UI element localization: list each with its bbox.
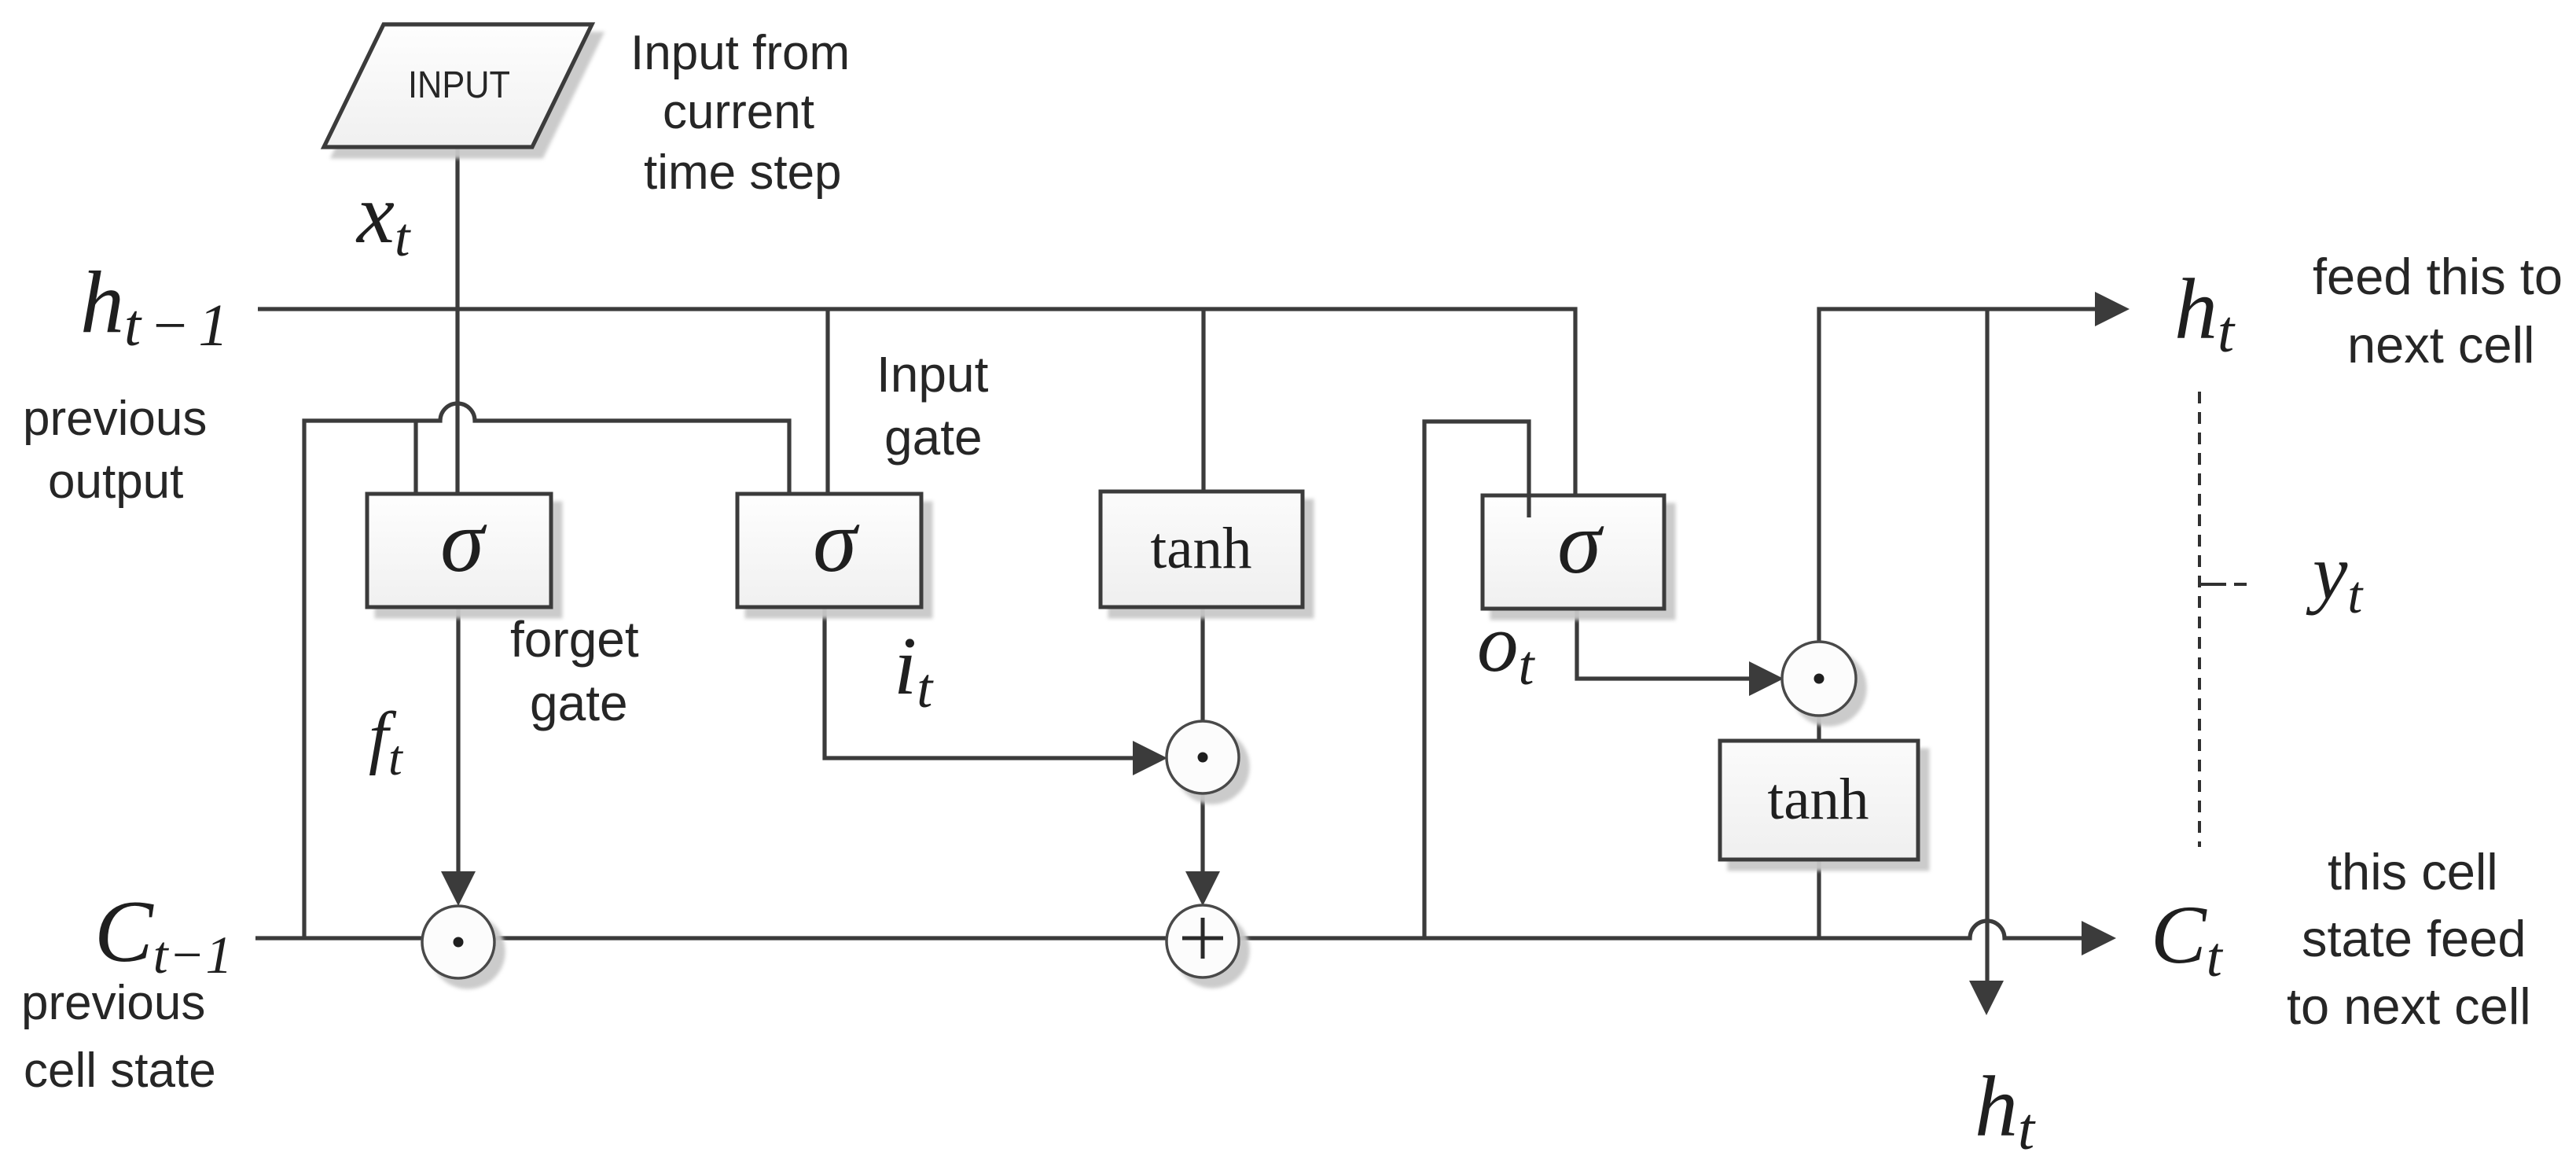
svg-text:ot: ot [1477,597,1536,697]
svg-text:σ: σ [440,492,487,591]
svg-text:feed this to: feed this to [2313,248,2563,305]
box input gate sigma [737,494,921,607]
arrow h_t right [2095,292,2130,326]
dashed line for y_t output [2198,392,2201,847]
arrow multiply into plus node [1185,871,1220,906]
svg-text:Input from: Input from [630,26,850,80]
wire i_t from input gate to multiply node [825,607,1133,758]
svg-text:Ct−1: Ct−1 [94,883,233,985]
svg-text:gate: gate [530,675,628,731]
svg-text:σ: σ [1557,494,1604,592]
wire peephole from C(t-1) to forget and input gates with hop over x_t [304,403,789,938]
svg-text:this cell: this cell [2328,843,2498,900]
arrow i_t into input multiply [1133,741,1167,775]
svg-text:ht: ht [1975,1058,2036,1162]
wire h branch into input gate [825,309,829,494]
svg-text:it: it [894,620,934,720]
wire h_t output segment to right arrow [1819,309,2096,642]
svg-text:ht−1: ht−1 [80,254,237,359]
box output tanh [1720,741,1918,860]
dashed tick toward y_t [2201,583,2247,586]
svg-text:yt: yt [2306,528,2364,624]
svg-text:ht: ht [2174,261,2236,365]
wire o_t from output gate to multiply node [1577,609,1751,679]
wire bottom tanh to cell state line [1817,860,1821,938]
svg-text:σ: σ [813,492,860,591]
wire cell state line C(t-1) to C_t with hop over h_t drop [255,921,2083,938]
arrow o_t into output multiply [1749,661,1784,696]
box output gate sigma [1483,495,1664,609]
svg-text:previous: previous [21,976,205,1030]
box candidate tanh [1101,491,1303,607]
svg-text:cell state: cell state [24,1044,216,1098]
arrow f_t into forget multiply [441,871,476,906]
box forget gate sigma [367,494,551,607]
wire peephole tap into forget gate [413,421,417,494]
svg-text:output: output [48,455,183,509]
wire x_t vertical from INPUT down into forget gate [455,147,459,494]
svg-text:state feed: state feed [2302,910,2526,967]
svg-text:Ct: Ct [2151,889,2224,988]
svg-text:previous: previous [23,392,207,446]
svg-text:gate: gate [884,409,983,466]
wire h_t drop down to bottom arrow [1985,309,1989,982]
svg-text:ft: ft [369,698,404,786]
svg-text:xt: xt [355,168,411,268]
wire peephole from C_t to output gate [1424,422,1529,938]
svg-text:INPUT: INPUT [408,64,510,106]
wire output multiply node down to tanh [1817,716,1821,741]
wire h branch into candidate tanh [1201,309,1205,491]
INPUT parallelogram [324,24,592,147]
wire multiply node down to plus node [1200,793,1204,871]
arrow C_t right [2082,921,2116,955]
node output multiply circle [1782,642,1856,716]
node forget multiply circle [422,906,494,978]
svg-text:time step: time step [644,145,842,200]
svg-text:forget: forget [510,611,639,668]
node input multiply circle [1167,721,1239,793]
wire candidate tanh output down to multiply node [1200,607,1204,721]
svg-text:tanh: tanh [1150,516,1251,581]
svg-text:Input: Input [876,346,989,403]
wire f_t from forget gate down to multiply node [456,607,460,874]
node plus circle [1167,905,1239,977]
svg-text:tanh: tanh [1767,767,1869,832]
wire h(t-1) main horizontal line into output gate [258,309,1575,495]
svg-text:to next cell: to next cell [2287,977,2531,1035]
wire peephole stub inside output gate box [1527,497,1531,517]
arrow h_t down at bottom [1969,981,2004,1015]
svg-text:current: current [663,85,814,139]
svg-text:next cell: next cell [2347,316,2534,374]
